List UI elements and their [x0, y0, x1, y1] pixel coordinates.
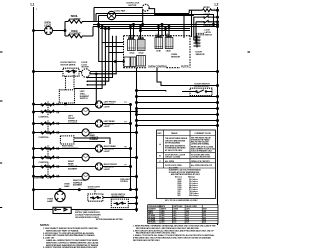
wire comb A riser 1 — [133, 25, 135, 39]
wire broil/bake bracket — [64, 22, 66, 37]
svg-text:SWITCH: SWITCH — [205, 35, 213, 37]
wire lower nest row 1 — [137, 91, 167, 92]
lamp left front indicator — [95, 101, 116, 109]
svg-text:1200: 1200 — [161, 215, 164, 217]
wire comb B riser 3 — [165, 29, 167, 37]
connector CN-B comb — [155, 33, 173, 53]
svg-text:(DOOR LOCK): (DOOR LOCK) — [111, 196, 124, 198]
lamp left rear indicator — [95, 120, 115, 128]
solenoid upper lock — [203, 7, 219, 11]
svg-text:3000: 3000 — [161, 213, 164, 215]
svg-text:OPEN LOCK CIRCUITS: OPEN LOCK CIRCUITS — [191, 161, 210, 163]
switch control 2 — [39, 121, 55, 139]
element right rear surface — [68, 154, 89, 171]
lamp right front indicator — [95, 163, 117, 171]
wire lower nest spine — [136, 68, 138, 212]
svg-text:CN-B2: CN-B2 — [166, 51, 171, 53]
wire lower lock switch feed — [194, 16, 203, 18]
wire upper lock coil feed — [189, 10, 202, 13]
svg-text:FILTER: FILTER — [181, 66, 189, 68]
svg-text:P1: P1 — [125, 102, 127, 104]
svg-text:L2: L2 — [215, 3, 219, 7]
wire sensor comb dashed links — [196, 33, 204, 34]
label drop stubs — [120, 102, 131, 183]
svg-text:P5: P5 — [125, 147, 127, 149]
wire erc descend nest 4 — [86, 36, 113, 79]
svg-text:Element: Element — [175, 175, 182, 178]
wire lower nest row 5 — [137, 114, 219, 116]
label oven control — [148, 65, 168, 68]
wire lock stack risers — [192, 10, 197, 43]
svg-text:CURRENT FLOW: CURRENT FLOW — [195, 133, 211, 135]
svg-text:OVEN CONTROL: OVEN CONTROL — [148, 65, 168, 68]
svg-text:CONTROL: CONTROL — [39, 137, 50, 139]
svg-text:IN THE DIAGRAM: IN THE DIAGRAM — [165, 141, 180, 144]
wire surface row 1 bottom — [33, 111, 137, 113]
wire comb B riser 1 — [158, 27, 160, 37]
wire drop bus B dots — [136, 111, 138, 178]
svg-text:LOWER: LOWER — [203, 14, 211, 16]
wire broil rail extension — [96, 21, 143, 23]
svg-text:(DOOR LOCK): (DOOR LOCK) — [195, 86, 209, 88]
svg-text:52.8: 52.8 — [203, 215, 206, 217]
label wire number 1 — [36, 9, 37, 11]
switch control 4 — [34, 164, 55, 180]
table wattage list — [175, 175, 199, 197]
wire erc descend nest 5 — [90, 36, 116, 74]
svg-text:P7: P7 — [125, 165, 127, 167]
wire surface row 2 top — [33, 123, 131, 125]
svg-text:MOTOR DRIVE: MOTOR DRIVE — [61, 65, 76, 67]
table element values text — [149, 205, 208, 224]
svg-text:ALL OPEN CIRCUITS OFF: ALL OPEN CIRCUITS OFF — [191, 164, 213, 167]
wire top row A — [94, 8, 142, 22]
wire lower nest row 3 — [137, 102, 219, 104]
svg-text:1000: 1000 — [161, 219, 164, 221]
wire door lock motor drop — [142, 9, 215, 26]
svg-text:CIRCUIT CLOSED: CIRCUIT CLOSED — [165, 157, 181, 159]
svg-text:LIGHT: LIGHT — [104, 151, 111, 153]
label notes heading — [40, 223, 50, 227]
label notes list — [43, 227, 99, 249]
node L1 label — [31, 3, 35, 7]
label door latch switch stack — [204, 25, 215, 37]
svg-text:LIGHT: LIGHT — [104, 106, 111, 108]
svg-text:250: 250 — [177, 195, 180, 197]
svg-text:CN-A2: CN-A2 — [139, 51, 144, 54]
node L2 label — [215, 3, 219, 7]
svg-text:5. VERIFY PROPER OPERATION AFT: 5. VERIFY PROPER OPERATION AFTER SERVICI… — [43, 246, 98, 249]
wire top row B — [96, 13, 189, 15]
resistor bake element — [65, 30, 93, 38]
wire nest left corner 2 — [74, 26, 124, 89]
label back splash note — [75, 209, 123, 222]
svg-text:LIGHT: LIGHT — [104, 126, 111, 128]
wire door light switch out — [103, 197, 137, 199]
svg-text:MOTOR: MOTOR — [129, 5, 137, 7]
connector CN-A comb — [128, 35, 146, 54]
label key note line — [165, 200, 198, 202]
wire oven lamp row — [33, 189, 137, 191]
svg-text:RF ELEM: RF ELEM — [149, 217, 156, 219]
svg-text:COOL FAN: COOL FAN — [114, 9, 125, 12]
svg-text:KEY: TO US & OHMS MODEL #S ONL: KEY: TO US & OHMS MODEL #S ONLY — [165, 200, 198, 202]
switch door switch door lock — [182, 83, 212, 95]
svg-text:CN-A1: CN-A1 — [130, 51, 135, 54]
svg-text:LIGHT: LIGHT — [44, 24, 51, 27]
wire motor to row1 drop — [96, 73, 98, 105]
wire top row C (fan row) — [99, 16, 194, 25]
svg-text:NOTES:: NOTES: — [40, 223, 50, 227]
element right front surface — [73, 173, 89, 187]
svg-text:ALL OPEN: ALL OPEN — [165, 160, 175, 163]
svg-text:SENSOR: SENSOR — [196, 54, 205, 56]
wire nest left corner 4 — [86, 29, 124, 83]
table element values frame — [148, 205, 218, 224]
svg-text:1000: 1000 — [161, 222, 164, 224]
wire door lock plunger out — [128, 203, 136, 205]
svg-text:230.4 ohms: 230.4 ohms — [189, 194, 199, 197]
switch door light — [88, 187, 103, 202]
wire lower nest row 6 — [137, 120, 219, 122]
svg-text:LISTED ARE NOMINAL: LISTED ARE NOMINAL — [191, 143, 210, 146]
wire main bus 3 — [100, 28, 190, 30]
switch door lock plunger — [111, 194, 128, 208]
lamp right rear indicator — [95, 145, 116, 153]
connector ticks on row wires — [57, 103, 59, 178]
element left front surface — [68, 108, 89, 125]
wire comb B riser 4 — [168, 26, 170, 37]
svg-text:AT 240 VOLTS ONLY: AT 240 VOLTS ONLY — [165, 149, 183, 152]
wire right grill outputs — [74, 138, 110, 144]
svg-text:UPPER: UPPER — [203, 7, 210, 9]
wire lower nest row 7 — [137, 125, 219, 127]
wire main bus 2 — [93, 26, 218, 28]
page tick mark right — [248, 51, 251, 53]
wire interlock row — [34, 209, 137, 211]
wire surface row 3 bottom — [33, 157, 137, 159]
svg-text:ELEMENT: ELEMENT — [70, 18, 82, 21]
table fault codes frame — [157, 130, 216, 199]
svg-text:DEADBOLT: DEADBOLT — [204, 25, 215, 28]
lamp oven light — [44, 22, 52, 35]
svg-text:1500: 1500 — [161, 217, 164, 219]
svg-text:RECORDS EACH NOTED ONLY.: RECORDS EACH NOTED ONLY. — [133, 239, 161, 242]
wire grill mech link — [66, 72, 75, 90]
svg-text:LOW: LOW — [186, 209, 190, 211]
label wire number 2 — [214, 9, 215, 11]
svg-text:LAMP: LAMP — [64, 185, 70, 188]
wire nest left corner 3 — [86, 28, 124, 86]
svg-text:1 2 3: 1 2 3 — [128, 36, 132, 38]
wire L2 bus — [217, 7, 219, 225]
motor door lock — [127, 2, 150, 11]
svg-text:CONTROL: CONTROL — [39, 117, 50, 119]
svg-text:22.2: 22.2 — [173, 211, 176, 213]
svg-text:L1: L1 — [31, 3, 35, 7]
connector door sensor comb — [194, 36, 201, 48]
svg-text:LOCKED CIRCUITS SET: LOCKED CIRCUITS SET — [191, 157, 211, 159]
wire surface row 4 bottom — [33, 175, 137, 177]
wire surface row 3 top — [33, 148, 131, 150]
transformer T1 — [124, 57, 136, 67]
svg-text:21.1: 21.1 — [203, 213, 206, 215]
switch lower lock — [203, 14, 219, 18]
svg-text:RR ELEM: RR ELEM — [149, 222, 156, 224]
wire riser from bake rail — [92, 27, 94, 37]
switch right grill element — [60, 136, 78, 150]
svg-text:51.8: 51.8 — [186, 219, 189, 221]
element left rear surface — [82, 129, 99, 141]
svg-text:LIGHT: LIGHT — [104, 169, 111, 171]
wire erc right row 1 — [157, 68, 218, 87]
table fault codes text — [158, 132, 215, 167]
svg-text:LF ELEM: LF ELEM — [149, 215, 156, 217]
switch left grill element — [59, 90, 89, 103]
label bottom right notes — [133, 225, 216, 242]
wire riser from broil rail — [95, 14, 97, 22]
svg-text:SWITCH: SWITCH — [80, 98, 88, 100]
wire L1 bus — [33, 7, 35, 210]
svg-text:P3: P3 — [125, 122, 127, 124]
label oven sensor — [171, 54, 180, 58]
svg-text:VOLTS IS PRESENT ONLY: VOLTS IS PRESENT ONLY — [191, 151, 213, 153]
wire drop bus A — [130, 104, 132, 191]
wire comb A riser 2 — [140, 27, 142, 39]
svg-text:SENSOR: SENSOR — [171, 56, 180, 58]
svg-text:ELEMENT: ELEMENT — [90, 139, 100, 141]
connector interlock plug — [53, 207, 71, 213]
motor door lock drive — [82, 62, 91, 77]
wire main bus 1 — [93, 24, 218, 26]
wire door motor drive row — [33, 71, 219, 73]
svg-text:ELEMENT: ELEMENT — [70, 33, 82, 36]
wire comb A riser 3 — [130, 26, 132, 39]
svg-text:51.8: 51.8 — [186, 222, 189, 224]
svg-text:ELEMENT: ELEMENT — [68, 168, 78, 170]
svg-text:CN-B1: CN-B1 — [156, 51, 161, 53]
wire nest left corner 1 — [99, 25, 124, 63]
svg-text:57.6: 57.6 — [173, 219, 176, 221]
svg-text:ELEMENT: ELEMENT — [73, 185, 83, 187]
wire surface row 4 top — [33, 166, 131, 168]
svg-text:OHMS: OHMS — [173, 209, 178, 211]
wire comb B riser 2 — [161, 25, 163, 37]
wire lower nest row 2 — [137, 96, 219, 98]
wire lower nest row 4 — [137, 108, 219, 110]
resistor broil element — [65, 15, 96, 23]
svg-text:1: 1 — [36, 9, 37, 11]
svg-text:57.6: 57.6 — [173, 222, 176, 224]
motor convection fan — [107, 9, 125, 19]
svg-text:CONTROL: CONTROL — [120, 181, 128, 183]
svg-text:17.3: 17.3 — [186, 213, 189, 215]
wire main bus 4 — [140, 30, 190, 32]
label wattage intro — [169, 166, 202, 176]
wire corner bus3 to sensor comb — [183, 15, 185, 38]
svg-text:2600: 2600 — [161, 211, 164, 213]
switch latch — [196, 20, 218, 23]
transformer T2 — [123, 56, 146, 67]
svg-text:TABLE: TABLE — [171, 132, 178, 135]
svg-text:LAMP: LAMP — [47, 200, 54, 203]
label oven lamp row — [64, 184, 70, 188]
svg-text:ELEMENT: ELEMENT — [149, 209, 156, 211]
svg-text:MOTOR: MOTOR — [82, 67, 90, 69]
svg-text:IN THIS DIAGRAM AS NOTED: IN THIS DIAGRAM AS NOTED — [96, 218, 123, 221]
wire surface row 2 bottom — [33, 132, 137, 134]
svg-text:BROIL: BROIL — [149, 213, 154, 215]
svg-text:20.0: 20.0 — [186, 211, 189, 213]
switch door motor drive — [61, 62, 80, 76]
lamp oven cavity light — [47, 190, 65, 204]
switch control 1 — [39, 102, 55, 119]
page tick marks left — [0, 52, 3, 208]
wire surface row 1 top — [33, 103, 131, 105]
label door sensor — [196, 52, 205, 57]
svg-text:CONTROL: CONTROL — [34, 178, 45, 180]
label filter — [181, 66, 189, 68]
svg-text:19.2: 19.2 — [173, 213, 176, 215]
wire oven light feed — [33, 30, 66, 32]
svg-text:KEY: KEY — [158, 133, 163, 135]
svg-text:LR ELEM: LR ELEM — [149, 219, 156, 221]
svg-text:Wattage: Wattage — [188, 175, 195, 178]
oven control dashed enclosure — [124, 36, 191, 68]
switch control 3 — [39, 146, 55, 164]
